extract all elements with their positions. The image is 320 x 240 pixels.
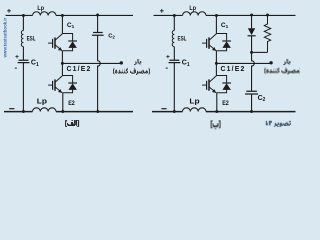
node snubber junctions (right) — [250, 14, 253, 17]
IGBT Q-top — [202, 34, 216, 51]
svg-text:www.tasisatbook.ir: www.tasisatbook.ir — [2, 17, 7, 58]
freewheel diode D-bottom — [62, 76, 77, 93]
wire collector feed Q-top — [61, 15, 63, 33]
load terminal dot — [269, 61, 272, 64]
svg-text:C1/E2: C1/E2 — [67, 66, 91, 73]
node C1/E2 junction — [215, 62, 218, 65]
wire D/R join — [252, 51, 268, 53]
svg-text:Lp: Lp — [37, 97, 48, 106]
svg-text:ESL: ESL — [27, 36, 36, 43]
inductor Lp (top) — [33, 12, 56, 16]
node D/R join junction — [250, 51, 253, 54]
freewheel diode D-top — [216, 34, 231, 51]
IGBT Q-bottom — [202, 76, 216, 93]
inductor Lp (bottom) — [183, 108, 206, 112]
IGBT Q-bottom — [48, 76, 62, 93]
wire snubber diode branch (top right) — [251, 15, 253, 28]
wire midpoint to Q-bottom — [215, 63, 217, 75]
inductor Lp (top) — [183, 12, 206, 16]
wire emitter to midpoint — [61, 51, 63, 64]
wire snubber branch (bottom) with hop over midline — [98, 35, 101, 111]
wire ESL branch — [173, 15, 175, 111]
load terminal dot — [120, 61, 123, 64]
wire top rail — [6, 14, 134, 16]
wire midpoint to Q-bottom — [61, 63, 63, 75]
DC - terminal — [9, 108, 14, 109]
node: top rail junctions — [173, 14, 176, 17]
capacitor C1 (electrolytic) — [169, 60, 181, 62]
freewheel diode D-top — [62, 34, 77, 51]
wire emitter to bottom rail — [62, 93, 64, 112]
C1 + polarity mark — [15, 55, 18, 58]
wire bottom rail — [4, 111, 133, 113]
node snubber-rail junctions (left) — [96, 14, 99, 17]
inductor Lp (bottom) — [33, 108, 56, 112]
svg-text:C1: C1 — [31, 60, 39, 68]
capacitor C2 (right) — [245, 91, 258, 94]
inductor ESL — [21, 31, 23, 47]
node: bottom rail junctions — [173, 110, 176, 113]
node C1/E2 junction — [61, 62, 64, 65]
wire snubber to C2 with hop over midline (right) — [252, 52, 255, 91]
snubber resistor R (right) — [264, 15, 270, 52]
label bar/load (left) — [134, 59, 141, 65]
inductor ESL — [172, 31, 174, 47]
node: top rail junctions — [22, 14, 25, 17]
figure caption tasvir 14 — [266, 121, 291, 127]
svg-text:C2: C2 — [258, 95, 266, 103]
svg-text:C1: C1 — [67, 22, 75, 29]
caption (be) right circuit — [211, 120, 221, 129]
C1 + polarity mark — [166, 55, 169, 58]
wire snubber branch (top) — [97, 15, 99, 32]
svg-text:C1: C1 — [182, 60, 190, 68]
wire top rail — [154, 14, 296, 16]
svg-text:Lp: Lp — [37, 5, 44, 12]
DC + terminal — [7, 9, 11, 13]
svg-text:E2: E2 — [222, 100, 229, 107]
svg-text:Lp: Lp — [189, 5, 196, 12]
wire ESL branch — [22, 15, 24, 111]
node: bottom rail junctions — [22, 110, 25, 113]
capacitor C1 (electrolytic) — [18, 60, 30, 62]
label (mosref konandeh) consumer (right) — [264, 67, 301, 74]
snubber diode D (right) — [248, 28, 255, 35]
C1 - polarity mark — [166, 68, 168, 69]
label bar/load (right) — [283, 59, 290, 65]
wire emitter to midpoint — [215, 51, 217, 64]
DC + terminal — [160, 9, 164, 13]
freewheel diode D-bottom — [216, 76, 231, 93]
wire collector feed Q-top — [215, 15, 217, 33]
output midline wire — [216, 62, 270, 64]
C1 - polarity mark — [15, 68, 17, 69]
IGBT Q-top — [48, 34, 62, 51]
svg-text:C2: C2 — [108, 34, 115, 40]
label (mosref konandeh) consumer (left) — [113, 68, 150, 75]
svg-text:E2: E2 — [68, 100, 75, 107]
capacitor C2 (left) — [92, 33, 104, 36]
wire emitter to bottom rail — [216, 93, 218, 112]
wire bottom rail — [152, 111, 296, 113]
svg-text:ESL: ESL — [178, 36, 187, 43]
svg-text:C1: C1 — [221, 22, 229, 29]
svg-text:C1/E2: C1/E2 — [221, 66, 245, 73]
svg-text:Lp: Lp — [189, 97, 200, 106]
caption (alef) left circuit — [65, 120, 79, 127]
output midline wire — [62, 62, 120, 64]
DC - terminal — [161, 108, 166, 109]
